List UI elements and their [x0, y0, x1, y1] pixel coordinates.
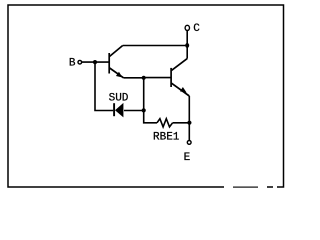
wire Q1 emitter to node [124, 77, 144, 79]
node Q1 emitter / Q2 base junction [142, 76, 146, 80]
wire top rail [123, 45, 188, 47]
terminal E [187, 141, 191, 145]
node B junction [93, 60, 97, 64]
diode SUD [114, 103, 123, 118]
node diode junction [142, 108, 146, 112]
wire B to Q1 base [82, 61, 109, 63]
svg-text:SUD: SUD [109, 93, 129, 105]
svg-text:RBE1: RBE1 [153, 131, 180, 143]
wire resistor to E line [173, 122, 190, 124]
wire B branch down to diode [95, 62, 113, 110]
wire E drop [188, 96, 190, 140]
terminal B [78, 60, 82, 64]
terminal C [185, 25, 189, 30]
node resistor / emitter junction [187, 121, 191, 125]
wire Q2 base [144, 77, 171, 79]
svg-text:B: B [69, 58, 76, 70]
svg-text:C: C [193, 23, 200, 35]
wire C drop [186, 31, 188, 59]
resistor RBE1 [157, 119, 173, 127]
wire node down to resistor [144, 78, 157, 123]
transistor Q2 [171, 59, 189, 96]
transistor Q1 [109, 46, 124, 80]
node rail junction [185, 43, 189, 48]
svg-text:E: E [184, 152, 191, 164]
wire diode to node [124, 110, 144, 112]
